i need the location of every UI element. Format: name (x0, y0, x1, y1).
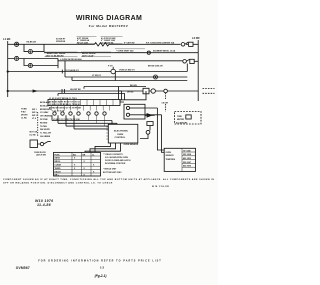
svg-text:BOTTOM UNIT ONLY: BOTTOM UNIT ONLY (103, 172, 122, 174)
dashed accessory box (175, 112, 202, 125)
svg-text:BK-WH: BK-WH (130, 85, 137, 87)
svg-text:* * RELAY CONTACTS: * * RELAY CONTACTS (103, 153, 123, 156)
svg-text:BROIL: BROIL (55, 161, 62, 163)
relay box (124, 104, 145, 119)
svg-text:RD-BK 2W: RD-BK 2W (27, 42, 37, 44)
svg-text:L1 N2 H1 H2 P2 BR BA CL TM SB: L1 N2 H1 H2 P2 BR BA CL TM SB K3 (49, 103, 80, 106)
terminal box right A (189, 42, 193, 46)
svg-text:8" UNIT SW: 8" UNIT SW (124, 42, 135, 44)
svg-text:METER: METER (177, 119, 185, 121)
control box pins (106, 127, 108, 139)
svg-text:OVM567: OVM567 (16, 266, 30, 270)
code table left (21, 109, 28, 120)
svg-text:P BU: P BU (21, 112, 26, 114)
svg-text:PK PINK: PK PINK (40, 119, 48, 121)
fan motor (151, 89, 155, 93)
svg-text:CL RD: CL RD (21, 118, 27, 120)
svg-text:GN GREEN: GN GREEN (40, 136, 51, 138)
svg-text:COMPONENT SHOWN AS IF AT EXACT: COMPONENT SHOWN AS IF AT EXACT TIME, CON… (3, 178, 214, 181)
wire upper elbow y86.5 (84, 87, 146, 100)
vent lamp row M (147, 51, 150, 54)
wire row M y52.5 (44, 52, 198, 54)
capacitor on row91 (62, 89, 64, 93)
stub below B2 (57, 66, 59, 69)
svg-text:240V 10.8A BK-RD: 240V 10.8A BK-RD (46, 54, 65, 57)
svg-text:CONTROL: CONTROL (115, 137, 126, 139)
svg-text:TN TAN: TN TAN (40, 125, 47, 128)
svg-text:SW 1: SW 1 (32, 109, 37, 111)
svg-text:2350W BK: 2350W BK (56, 41, 66, 43)
sensor table (164, 148, 195, 171)
sensor riser elbows (157, 149, 164, 153)
svg-text:M M COLOR: M M COLOR (152, 186, 169, 188)
svg-text:CLEAN: CLEAN (55, 164, 62, 167)
junction dot row71 (7, 71, 8, 72)
contact circle 3 (69, 112, 72, 115)
legend column text (40, 101, 52, 138)
svg-text:LF 1250W 8A: LF 1250W 8A (101, 41, 114, 44)
label surface unit table 2 (101, 37, 116, 44)
svg-text:DR WH: DR WH (21, 115, 28, 117)
label box 3 (115, 49, 145, 53)
terminal strip (48, 100, 120, 106)
svg-text:RF LR 124V: RF LR 124V (77, 41, 89, 44)
svg-text:BR BROWN: BR BROWN (40, 109, 51, 111)
svg-text:OVEN: OVEN (166, 152, 172, 154)
label light switch stack (56, 39, 66, 43)
svg-text:W10 1976: W10 1976 (35, 199, 53, 203)
lamp left B2 (28, 63, 32, 67)
svg-text:ELEMENT BROIL 13.5A: ELEMENT BROIL 13.5A (153, 50, 176, 53)
svg-text:FOR ORDERING INFORMATION REFER: FOR ORDERING INFORMATION REFER TO PARTS … (38, 259, 162, 262)
contact circle 2 (61, 112, 64, 115)
relay contact a (126, 106, 129, 109)
svg-text:FUNC: FUNC (55, 154, 61, 156)
bus L2 (right vertical) (197, 40, 199, 101)
wire row A2 (33, 44, 45, 51)
svg-text:N.O. SHOWN WITH OVEN: N.O. SHOWN WITH OVEN (105, 157, 129, 159)
indicator small (164, 89, 168, 93)
junction drop B (24, 59, 28, 66)
svg-text:DOOR CLOSED AND LATCH: DOOR CLOSED AND LATCH (105, 159, 131, 162)
bus L1 (left vertical) (7, 41, 9, 97)
fuse junction (61, 70, 63, 74)
svg-text:OFF OR RELAXED POSITION. DISCO: OFF OR RELAXED POSITION. DISCONNECT AND … (3, 182, 113, 185)
svg-text:240V 14.2A *: 240V 14.2A * (82, 54, 94, 57)
svg-text:550 2047: 550 2047 (183, 161, 191, 164)
resistor heating element (95, 43, 110, 46)
wire strip to relay (120, 100, 124, 103)
selector arrow (147, 114, 152, 117)
wire drop from B to light rows (186, 64, 188, 72)
contact circle 7 (103, 112, 106, 115)
svg-text:GY GRAY: GY GRAY (40, 111, 49, 114)
wire to accessory (165, 93, 167, 112)
switch right B (183, 60, 187, 64)
svg-text:L1 BK: L1 BK (3, 37, 11, 41)
code table mid (32, 109, 37, 120)
latch text above (30, 132, 38, 137)
svg-text:RD RED: RD RED (40, 122, 48, 124)
svg-text:DR BU: DR BU (127, 92, 134, 94)
svg-text:SW 2: SW 2 (32, 112, 37, 114)
junction dot row91 (7, 90, 8, 91)
function legend table (54, 152, 101, 176)
wire right riser b (145, 115, 162, 149)
svg-text:(Pg-2-1): (Pg-2-1) (95, 274, 107, 278)
thermal contact (146, 130, 150, 134)
contact circle 6 (95, 112, 98, 115)
electronic oven control box (108, 124, 138, 143)
svg-text:BAKE: BAKE (55, 157, 61, 160)
contact circle 5 (87, 112, 90, 115)
latch text below (34, 152, 46, 157)
svg-text:YL YELLOW: YL YELLOW (40, 133, 51, 135)
svg-text:CB OR: CB OR (162, 102, 169, 104)
thermal switch box (147, 122, 153, 126)
svg-text:TH BK: TH BK (21, 109, 27, 111)
svg-text:OVEN: OVEN (117, 134, 124, 136)
drops from contacts (89, 115, 105, 126)
wire row B y58.5 (8, 58, 58, 60)
wire row B to right (58, 59, 183, 61)
contact circle 4 (77, 112, 80, 115)
svg-text:BK BLACK: BK BLACK (40, 101, 51, 104)
svg-text:DELAY: DELAY (55, 170, 62, 173)
terminal strip labels below (49, 108, 81, 113)
wire strip right riser (120, 91, 146, 100)
svg-text:MOT OR: MOT OR (30, 132, 38, 134)
svg-text:BR SW 2 BK-OR: BR SW 2 BK-OR (148, 65, 163, 67)
dashed stubs right of bus (203, 88, 215, 90)
relay contact b (126, 113, 129, 116)
svg-text:11-4-86: 11-4-86 (37, 203, 51, 207)
label bake unit box 1 (45, 52, 78, 57)
svg-text:TEMP/RES: TEMP/RES (166, 159, 176, 161)
wire row B2 merge (33, 59, 59, 66)
wire row y77 (65, 61, 187, 77)
svg-text:BK RD WH OR BU GY YL TN: BK RD WH OR BU GY YL TN PK BR (49, 108, 81, 110)
switch contacts under strip (51, 106, 109, 111)
svg-text:OR ORANGE: OR ORANGE (40, 115, 52, 118)
oven light lamp (111, 69, 116, 74)
svg-text:850 2590: 850 2590 (183, 166, 191, 168)
svg-text:OVEN LT 40W GY: OVEN LT 40W GY (119, 69, 135, 72)
wire row y80.5 (72, 72, 187, 81)
latch switch (40, 142, 43, 145)
wire lower elbow y93.5 (58, 94, 125, 100)
svg-text:* OVEN VENT 240: * OVEN VENT 240 (116, 50, 134, 53)
wire B box to bus (194, 60, 198, 62)
indicator lamp row77 (154, 75, 158, 79)
svg-text:BU BLUE: BU BLUE (40, 105, 49, 107)
lamp left B (15, 56, 19, 60)
sensor elbow wires (85, 143, 121, 153)
svg-text:For Model RB170PXV: For Model RB170PXV (89, 24, 129, 28)
switch right A (181, 43, 185, 47)
interlock box row91 (143, 88, 149, 94)
svg-text:TIME: TIME (177, 116, 182, 118)
handwritten date note (35, 199, 53, 207)
lamp left A (15, 42, 19, 46)
svg-text:WH WHITE: WH WHITE (40, 129, 51, 131)
wire oven light row y71.5 (8, 71, 188, 73)
svg-text:ACCESSORY: ACCESSORY (176, 122, 188, 125)
svg-text:1-2: 1-2 (100, 266, 104, 270)
svg-text:TIMED: TIMED (55, 168, 62, 170)
svg-text:IN NORMAL POSITION: IN NORMAL POSITION (105, 162, 126, 165)
accessory small box (186, 115, 191, 119)
svg-text:R.F. 1250/3000W LIMITER 19A: R.F. 1250/3000W LIMITER 19A (146, 41, 175, 44)
door latch box (30, 140, 38, 148)
svg-text:ELECTRONIC: ELECTRONIC (114, 131, 129, 133)
svg-text:WIRING DIAGRAM: WIRING DIAGRAM (76, 15, 142, 22)
svg-text:SW 3: SW 3 (32, 115, 37, 117)
svg-text:350 1654: 350 1654 (183, 153, 192, 156)
svg-text:LT SW GY: LT SW GY (92, 75, 102, 77)
svg-text:450 1852: 450 1852 (183, 157, 191, 160)
svg-text:L2 RD: L2 RD (192, 36, 200, 40)
svg-text:DL SW: DL SW (30, 134, 36, 136)
label surface unit table 1 (77, 37, 90, 44)
svg-text:OVEN SENSOR: OVEN SENSOR (124, 144, 139, 146)
svg-text:70° 1080: 70° 1080 (183, 150, 191, 152)
svg-text:LT 4: LT 4 (32, 117, 37, 120)
collector bus wires (52, 115, 117, 129)
wire right riser a (145, 108, 157, 149)
svg-text:SENSOR: SENSOR (166, 155, 175, 157)
lamp left A2 (28, 50, 32, 54)
svg-text:* SINGLE UNIT: * SINGLE UNIT (103, 169, 117, 171)
dashed vertical door (37, 112, 39, 136)
svg-text:OVEN DOOR: OVEN DOOR (34, 152, 46, 154)
svg-text:HI-LIMIT BK: HI-LIMIT BK (70, 89, 81, 91)
svg-text:FU 15A BK-GY: FU 15A BK-GY (65, 69, 79, 72)
svg-text:LATCH SW: LATCH SW (36, 154, 46, 157)
arrow on row91 (33, 90, 36, 92)
wire right row y91 (119, 90, 199, 92)
contact circle 1 (53, 112, 56, 115)
wire main row y91 (8, 91, 122, 100)
svg-text:P GY: P GY (108, 65, 113, 67)
legend notes (103, 153, 131, 174)
terminal box right B (190, 59, 194, 63)
label bake unit box 2 (81, 52, 111, 57)
junction drop A (24, 44, 28, 51)
wire row A y44 (8, 43, 199, 45)
